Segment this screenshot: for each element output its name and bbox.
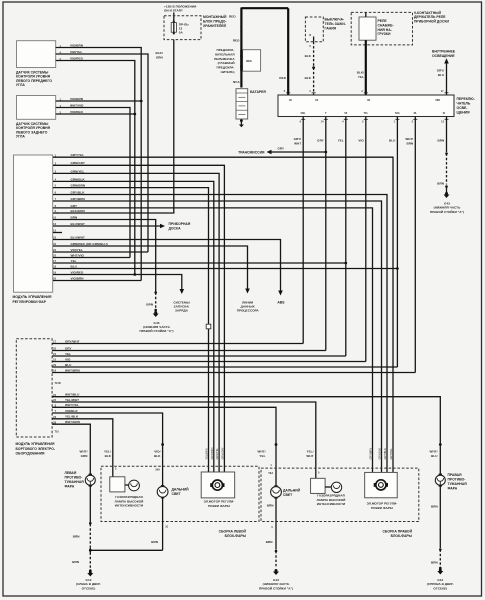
wire label YEL/WHT at right HID [306, 450, 313, 458]
svg-text:ПРИБОРНАЯ: ПРИБОРНАЯ [169, 222, 191, 226]
svg-text:ОСВЕ-: ОСВЕ- [457, 106, 468, 110]
svg-text:ИНТЕНСИВНОСТИ: ИНТЕНСИВНОСТИ [317, 502, 345, 506]
label module [13, 295, 52, 304]
svg-text:WHT/: WHT/ [80, 450, 88, 454]
svg-text:РЕГУЛИРОВКИ ФАР: РЕГУЛИРОВКИ ФАР [13, 300, 47, 304]
svg-text:58D: 58D [435, 98, 440, 102]
svg-text:RED: RED [279, 76, 286, 80]
svg-text:RED: RED [229, 15, 236, 19]
svg-text:BLK/: BLK/ [357, 71, 364, 75]
label ground G43 right [430, 202, 464, 214]
ground G12 left [87, 571, 93, 577]
svg-text:VIO/RED: VIO/RED [70, 56, 84, 60]
svg-text:BRN: BRN [146, 303, 153, 307]
wire label YEL/BLK at left HID [104, 450, 112, 458]
svg-text:ДАЛЬНИЙ: ДАЛЬНИЙ [172, 488, 190, 492]
svg-text:VIO/YEL: VIO/YEL [70, 50, 82, 54]
svg-text:ГАНИЯ: ГАНИЯ [325, 26, 337, 30]
svg-text:VIO/BRN: VIO/BRN [70, 43, 83, 47]
light switch ПЕРЕКЛЮЧАТЕЛЬ ОСВЕЩЕНИЯ [278, 95, 454, 117]
svg-text:ЧАТЕЛЬ: ЧАТЕЛЬ [457, 102, 471, 106]
svg-text:WHT/VIO: WHT/VIO [71, 253, 85, 257]
svg-text:ОСВЕЩЕНИЕ: ОСВЕЩЕНИЕ [432, 54, 455, 58]
svg-text:56A: 56A [269, 471, 274, 475]
wire YEL body module r3 [52, 355, 346, 357]
svg-text:НИТЕЛЬ): НИТЕЛЬ) [221, 70, 235, 74]
svg-text:ГРУЗКИ: ГРУЗКИ [378, 32, 391, 36]
svg-text:ПРАВОЙ СТОЙКИ "А"): ПРАВОЙ СТОЙКИ "А") [430, 210, 464, 214]
svg-text:YEL/BRN: YEL/BRN [205, 448, 209, 459]
left fog lamp ЛЕВАЯ ПРОТИВОТУМАННАЯ ФАРА [85, 474, 95, 487]
terminal labels light switch bottom row [301, 111, 446, 115]
wire WHT/GRN body module r12 to left fog lamp [52, 424, 90, 475]
svg-text:СВЕТ: СВЕТ [172, 492, 182, 496]
svg-text:РОВКИ ФАРЫ: РОВКИ ФАРЫ [371, 506, 393, 510]
right HID ballast + lamp [311, 478, 342, 493]
svg-text:BRN: BRN [438, 139, 445, 143]
wire GRN/BRN module pin5 to left motor [53, 188, 209, 473]
wire BLU/WHT module pin11 stub [53, 225, 161, 227]
svg-text:GRN: GRN [81, 454, 88, 458]
svg-text:СБОРКА ЛЕВОЙ: СБОРКА ЛЕВОЙ [219, 529, 247, 533]
svg-text:БЛОК ПРЕДО-: БЛОК ПРЕДО- [203, 19, 227, 23]
svg-text:GRY/BRN: GRY/BRN [71, 197, 85, 201]
svg-text:BLU: BLU [71, 264, 78, 268]
label light switch [457, 97, 475, 115]
ground G43 (light switch) [444, 192, 450, 198]
wire BRN high beam joins fog ground [90, 549, 162, 551]
level sensor rear left ДАТЧИК СИСТЕМЫ КОНТРОЛЯ УРОВНЯ ЛЕВОГО ЗАДНЕГО УГЛА [17, 96, 62, 120]
pin ticks and numbers above light switch [286, 92, 448, 94]
wire VIO/BRN module pin20 (from sensors) [53, 280, 141, 282]
svg-text:ПРЕДОХРА-: ПРЕДОХРА- [216, 66, 234, 70]
label relay [378, 19, 394, 36]
svg-text:BLU/WHT: BLU/WHT [71, 222, 85, 226]
svg-text:ПРАВАЯ: ПРАВАЯ [448, 473, 463, 477]
wire VIO/BRN sensor RL pin1 [56, 100, 142, 102]
wire VIO body module r4 [52, 361, 366, 363]
svg-text:WHT/: WHT/ [430, 450, 438, 454]
svg-text:ВЫКЛЮЧА-: ВЫКЛЮЧА- [325, 18, 345, 22]
svg-text:НИЯ НА-: НИЯ НА- [378, 28, 392, 32]
node +12V IN ON AND START [164, 5, 196, 13]
wire YEL/BLK body module r11 to left HID lamp [52, 419, 113, 477]
wire RED to light switch pin 30 [287, 8, 289, 95]
svg-text:VIO: VIO [358, 139, 364, 143]
junction GRY / transmission tap [324, 151, 327, 154]
wire right high beam low side BRN [275, 497, 277, 549]
svg-text:БЛОК-ФАРЫ: БЛОК-ФАРЫ [225, 534, 247, 538]
svg-text:80А: 80А [246, 59, 252, 63]
svg-text:ПРОТИВО-: ПРОТИВО- [65, 476, 83, 480]
wire WHT/VIO sensor RL pin4 [56, 108, 130, 258]
svg-text:GRY/BLK: GRY/BLK [383, 448, 387, 459]
body electronics module МОДУЛЬ УПРАВЛЕНИЯ БОРТОВОГО ЭЛЕКТРООБОРУДОВАНИЯ dashed box [16, 339, 52, 437]
svg-text:GRN/GRY: GRN/GRY [71, 161, 85, 165]
wire VIO/BLK body module r10 to left high beam [52, 413, 163, 486]
svg-text:BLK: BLK [305, 54, 312, 58]
pin numbers below light switch [300, 120, 445, 124]
wire WHT/VIO module pin16 (from sensor RL) [53, 257, 130, 259]
wire label WHT/YEL at right high beam [258, 450, 266, 458]
wire GRY arrow to ТРАНСМИССИЯ [238, 147, 326, 155]
wire YEL light switch 56 down [345, 117, 347, 357]
svg-text:ПЕРЕМЫЧКА: ПЕРЕМЫЧКА [214, 57, 235, 61]
label ground G43 (НИЖНЯЯ ЧАСТЬ ПРАВОЙ СТОЙКИ А) [139, 321, 173, 333]
svg-text:BLU: BLU [438, 73, 445, 77]
svg-text:ПЕРЕКЛЮ-: ПЕРЕКЛЮ- [457, 97, 475, 101]
wire BLK/GRN fuse to module pin 9 [57, 40, 174, 213]
svg-text:WHT/: WHT/ [405, 137, 413, 141]
svg-text:ТУМАННАЯ: ТУМАННАЯ [65, 480, 85, 484]
svg-text:GRY/YEL: GRY/YEL [71, 153, 85, 157]
label ground G12 left [76, 578, 101, 590]
svg-text:GRY: GRY [65, 346, 72, 350]
svg-text:BRN: BRN [407, 141, 414, 145]
svg-text:ИНТЕНСИВНОСТИ: ИНТЕНСИВНОСТИ [115, 504, 143, 508]
junction VIO/BRN [140, 100, 143, 103]
wire BRN module pin10 to ground G43 [53, 220, 156, 293]
wire BLU/WHT module pin13 to ABS [53, 240, 281, 292]
wire GRN/BLK module pin4 to left motor [53, 181, 214, 472]
svg-text:WHT/BRN: WHT/BRN [65, 368, 80, 372]
wire VIO/RED sensor RL pin2 [56, 113, 135, 115]
svg-text:YEL: YEL [259, 454, 265, 458]
svg-text:YEL/BLK: YEL/BLK [65, 415, 79, 419]
label body electronics module [16, 442, 56, 456]
svg-text:GRY/: GRY/ [294, 137, 302, 141]
ground G43 center [273, 569, 279, 575]
label left HID [115, 495, 144, 508]
wire GRY module pin8 to right motor [53, 208, 373, 473]
svg-text:ПРАВОЙ СТОЙКИ "А"): ПРАВОЙ СТОЙКИ "А") [259, 586, 293, 590]
wire WHT/BRN body module r6 [52, 372, 415, 374]
left high beam lamp ДАЛЬНИЙ СВЕТ [157, 485, 168, 498]
svg-text:МОНТАЖНЫЙ: МОНТАЖНЫЙ [203, 15, 227, 19]
label fuse block [203, 15, 227, 28]
wire VIO/BRN sensor FL pin1 [56, 48, 142, 281]
svg-text:RL: RL [414, 111, 418, 115]
svg-text:ФАРА: ФАРА [65, 485, 75, 489]
svg-text:ОТСЕКЕ): ОТСЕКЕ) [433, 586, 447, 590]
svg-text:VIO: VIO [65, 357, 71, 361]
svg-text:56A: 56A [395, 111, 400, 115]
svg-text:WHT/YEL: WHT/YEL [65, 403, 79, 407]
svg-text:WHT: WHT [306, 454, 313, 458]
label left motor [204, 500, 235, 508]
relay holder 9-КОНТАКТНЫЙ ДЕРЖАТЕЛЬ РЕЛЕ dashed box [351, 12, 412, 45]
wire BRN right fog to ground G12 right [439, 485, 441, 548]
svg-text:BLK/GRN: BLK/GRN [71, 209, 85, 213]
wire BRN dashed to ground G43 center [275, 550, 278, 553]
pin numbers module [53, 153, 56, 280]
svg-text:ЛЕВАЯ: ЛЕВАЯ [65, 471, 77, 475]
fusible link 80A (ПРЕДОХРАНИТЕЛЬНАЯ ПЕРЕМЫЧКА) [240, 50, 261, 71]
svg-text:СВЕТ: СВЕТ [283, 493, 293, 497]
label right motor [367, 502, 398, 510]
junction BLU [396, 267, 399, 270]
wire BLK/YEL relay to light switch [365, 40, 367, 95]
svg-text:BLK: BLK [105, 454, 112, 458]
arrow down СИСТЕМЫ ЗАПУСКА/ЗАРЯДА [180, 289, 185, 294]
ignition switch ВЫКЛЮЧАТЕЛЬ ЗАЖИГАНИЯ dashed box [305, 17, 323, 42]
fuse block (МОНТАЖНЫЙ БЛОК ПРЕДОХРАНИТЕЛЕЙ) dashed box [164, 16, 201, 40]
svg-text:БАТАРЕЯ: БАТАРЕЯ [250, 90, 266, 94]
wire top bus RED from battery to ignition switch feed [241, 7, 288, 9]
svg-text:GRN/BRN: GRN/BRN [71, 184, 86, 188]
svg-text:BLK: BLK [154, 454, 161, 458]
label relay holder [414, 11, 450, 24]
svg-text:РОВКИ ФАРЫ: РОВКИ ФАРЫ [208, 504, 230, 508]
wire BRN light switch 31 to ground G43 [446, 117, 448, 153]
svg-text:GRY: GRY [71, 204, 78, 208]
svg-text:УГЛА: УГЛА [16, 135, 25, 139]
wire BLK ignition to light switch (dashed) [313, 42, 315, 95]
arrow down ABS [278, 291, 283, 296]
wire YEL/WHT body module r8 to right HID lamp [52, 402, 316, 478]
svg-text:RED: RED [233, 39, 240, 43]
svg-text:WHT: WHT [294, 141, 301, 145]
junction VIO/RED [133, 113, 136, 116]
svg-text:ТУМАННАЯ: ТУМАННАЯ [448, 482, 468, 486]
wire BLU module pin18 to light switch BLU [53, 268, 397, 270]
wire GRN/GRY module pin2 to left motor [53, 165, 224, 472]
wire VIO/YEL sensor FL pin4 [56, 54, 148, 252]
label left fog lamp [65, 471, 85, 489]
svg-text:GRY: GRY [317, 139, 324, 143]
wire GRY/WHT light switch NSL down [302, 117, 304, 344]
node ВНУТРЕННЕЕ ОСВЕЩЕНИЕ (interior lighting, arrow up) [432, 50, 456, 96]
svg-text:GRY: GRY [278, 147, 285, 151]
svg-text:GRY/WHT: GRY/WHT [65, 339, 80, 343]
left HID ballast + lamp ГАЗОРАЗРЯДНАЯ ЛАМПА ВЫСОКОЙ ИНТЕНСИВНОСТИ [110, 477, 140, 492]
svg-text:BRN: BRN [71, 215, 78, 219]
wire labels right motor (vertical) [369, 448, 394, 460]
svg-text:VIO/BRN: VIO/BRN [70, 97, 83, 101]
svg-text:BLU: BLU [431, 454, 438, 458]
svg-text:БОРТОВОГО ЭЛЕКТРО-: БОРТОВОГО ЭЛЕКТРО- [16, 447, 56, 451]
svg-text:ВНУТРЕННЕЕ: ВНУТРЕННЕЕ [432, 50, 456, 54]
svg-text:ОБОРУДОВАНИЯ: ОБОРУДОВАНИЯ [16, 452, 46, 456]
svg-text:BLU: BLU [65, 363, 72, 367]
wire BLU body module r5 [52, 366, 397, 368]
svg-text:9-КОНТАКТНЫЙ: 9-КОНТАКТНЫЙ [414, 11, 441, 15]
wire GRY body module r2 [52, 350, 326, 352]
svg-text:BLU: BLU [389, 139, 396, 143]
svg-text:GRY/YEL: GRY/YEL [389, 448, 393, 460]
wire battery positive lead [240, 8, 242, 88]
svg-text:VIO/BRN: VIO/BRN [71, 276, 84, 280]
svg-text:YEL: YEL [358, 75, 364, 79]
wire label WHT/BLU at right fog [430, 450, 439, 458]
svg-text:БЛОК-ФАРЫ: БЛОК-ФАРЫ [391, 534, 413, 538]
label right high beam [283, 489, 301, 498]
junction VIO/RED sensor drop [133, 273, 136, 276]
wire module pin12 arrow to instrument panel ПРИБОРНАЯ ДОСКА [160, 222, 191, 231]
label right HID [317, 494, 346, 507]
svg-text:(ГЛАВНЫЙ: (ГЛАВНЫЙ [218, 61, 235, 65]
right headlight assembly СБОРКА ПРАВОЙ БЛОК-ФАРЫ dashed box [261, 468, 419, 521]
connector marks on battery lead [240, 26, 242, 28]
svg-text:TFL: TFL [363, 111, 368, 115]
svg-text:НИТЕЛЬНАЯ: НИТЕЛЬНАЯ [215, 52, 235, 56]
svg-text:VIO/RED: VIO/RED [71, 270, 85, 274]
svg-text:ДЕРЖАТЕЛЬ РЕЛЕ: ДЕРЖАТЕЛЬ РЕЛЕ [414, 15, 446, 19]
label right assembly [382, 529, 412, 538]
svg-text:GRN/BLK: GRN/BLK [378, 448, 382, 460]
svg-text:GRY/: GRY/ [437, 69, 445, 73]
svg-text:ПРЕДОХРА-: ПРЕДОХРА- [216, 48, 234, 52]
svg-text:СНАБЖЕ-: СНАБЖЕ- [378, 23, 394, 27]
svg-text:GRN/YEL: GRN/YEL [215, 448, 219, 460]
svg-text:ХРАНИТЕЛЕЙ: ХРАНИТЕЛЕЙ [203, 24, 227, 28]
wire VIO/RED module pin19 to starting/charging systems [53, 275, 182, 290]
svg-text:ЩЕНИЯ: ЩЕНИЯ [457, 111, 471, 115]
wire VIO light switch TFL down [365, 117, 367, 362]
wire BLK/GRN module pin9 stub (joins fuse wire) [53, 212, 58, 214]
svg-text:WHT/BLU: WHT/BLU [65, 393, 80, 397]
wire WHT/BRN light switch RL down [414, 117, 416, 373]
svg-text:GRN/YEL: GRN/YEL [71, 169, 85, 173]
svg-text:YEL/: YEL/ [104, 450, 111, 454]
svg-text:BLU/WHT: BLU/WHT [71, 235, 85, 239]
svg-text:ON И START: ON И START [164, 9, 183, 13]
svg-text:NSL: NSL [301, 111, 307, 115]
svg-text:BRN: BRN [437, 182, 444, 186]
label ground G12 right [427, 578, 454, 590]
svg-text:ТРАНСМИССИЯ: ТРАНСМИССИЯ [238, 151, 265, 155]
pin ticks below light switch [301, 118, 448, 120]
svg-text:РЕЛЕ: РЕЛЕ [378, 19, 388, 23]
svg-text:VIO/RED: VIO/RED [70, 110, 84, 114]
left headlight assembly СБОРКА ЛЕВОЙ БЛОК-ФАРЫ dashed box [101, 466, 259, 521]
label sensor front left [16, 70, 52, 87]
wire VIO/YEL module pin15 (from sensor FL) [53, 251, 148, 253]
svg-text:56A: 56A [155, 468, 160, 472]
svg-text:ДОСКА: ДОСКА [169, 227, 182, 231]
svg-text:BRN: BRN [72, 560, 79, 564]
svg-text:WHT/VIO: WHT/VIO [70, 103, 84, 107]
svg-text:ЗАРЯДА: ЗАРЯДА [175, 309, 189, 313]
svg-text:МОДУЛЬ УПРАВЛЕНИЯ: МОДУЛЬ УПРАВЛЕНИЯ [16, 442, 55, 446]
svg-text:GRY/BRN: GRY/BRN [369, 448, 373, 460]
label fusible link [214, 48, 235, 74]
svg-text:YEL: YEL [65, 352, 71, 356]
ground G12 right [437, 569, 443, 575]
svg-text:ПРОТИВО-: ПРОТИВО- [448, 478, 466, 482]
svg-text:GRN/RED (OR GRN/BLU): GRN/RED (OR GRN/BLU) [71, 242, 108, 246]
svg-text:B: B [309, 33, 311, 37]
terminal labels light switch top row [289, 98, 440, 102]
svg-text:YEL/: YEL/ [307, 450, 314, 454]
svg-text:GRN/BLK: GRN/BLK [71, 177, 86, 181]
wire YEL module pin17 to light switch YEL [53, 262, 346, 264]
svg-text:ТЕЛЬ ЗАЖИ-: ТЕЛЬ ЗАЖИ- [325, 22, 346, 26]
label right fog lamp [448, 473, 468, 491]
wire GRY/WHT body module r1 [52, 343, 303, 345]
wire BRN left fog to ground G12 [89, 485, 91, 522]
wire label WHT/GRN at left fog [80, 450, 88, 458]
wire WHT/BLU body module r7 to right fog lamp [52, 397, 440, 475]
svg-text:BRN: BRN [431, 505, 438, 509]
wire BLU light switch 56A down [396, 117, 398, 368]
svg-text:СБОРКА ПРАВОЙ: СБОРКА ПРАВОЙ [382, 529, 412, 533]
wire GRY/BLK module pin6 to right motor [53, 195, 387, 473]
svg-text:BRN: BRN [266, 540, 273, 544]
label sensor rear left [16, 122, 51, 139]
svg-text:GRY/BLK: GRY/BLK [71, 190, 86, 194]
svg-text:VIO/BLK: VIO/BLK [65, 409, 78, 413]
svg-text:NCA: NCA [233, 80, 241, 84]
svg-text:ПРИБОРНОЙ ДОСКИ: ПРИБОРНОЙ ДОСКИ [414, 20, 450, 24]
svg-text:T10B: T10B [55, 381, 61, 385]
svg-text:YEL/WHT: YEL/WHT [65, 398, 79, 402]
pin numbers body module [53, 340, 56, 425]
wire BRN dashed segment to ground [154, 291, 157, 294]
wire GRY light switch T down [325, 117, 327, 351]
svg-text:УГЛА: УГЛА [16, 83, 25, 87]
svg-text:BRN: BRN [267, 504, 274, 508]
svg-text:GRN: GRN [156, 55, 163, 59]
svg-text:ПРАВОЙ СТОЙКИ "А"): ПРАВОЙ СТОЙКИ "А") [139, 329, 173, 333]
wire WHT/YEL body module r9 to right high beam [52, 407, 276, 486]
svg-text:WHT/: WHT/ [258, 450, 266, 454]
ground battery negative [239, 119, 244, 127]
label left assembly [219, 529, 247, 538]
relay РЕЛЕ СНАБЖЕНИЯ НАГРУЗКИ [359, 12, 376, 40]
wire GRN/YEL module pin3 to left motor [53, 173, 219, 472]
arrow down ЛИНИИ ДАННЫХ ПРОЦЕССОРА [245, 289, 250, 294]
wire labels left motor (vertical) [205, 447, 225, 459]
right leveling motor [365, 472, 398, 497]
connector dots on lamp feeds [161, 443, 164, 446]
svg-text:VIO/: VIO/ [154, 450, 160, 454]
svg-text:VIO/YEL: VIO/YEL [71, 248, 83, 252]
label left high beam [172, 488, 190, 497]
svg-text:YEL: YEL [338, 139, 344, 143]
svg-text:ABS: ABS [277, 300, 285, 304]
svg-text:GRN/GRY: GRN/GRY [220, 447, 224, 459]
ground G43 (module) [153, 311, 159, 317]
wire left high beam low side to bottom edge [162, 497, 164, 550]
wire label VIO/BLK at left high beam [154, 450, 161, 458]
connector inline on GRN/BRN wire [206, 324, 211, 329]
label ignition switch [325, 18, 346, 31]
svg-text:YEL: YEL [71, 259, 77, 263]
svg-text:ДАЛЬНИЙ: ДАЛЬНИЙ [283, 489, 301, 493]
svg-text:ОТСЕКЕ): ОТСЕКЕ) [82, 586, 96, 590]
fuse ПР-ЛЬ 13 5А [171, 20, 189, 34]
headlamp leveling control module МОДУЛЬ УПРАВЛЕНИЯ РЕГУЛИРОВКИ ФАР [14, 155, 53, 292]
right high beam lamp ДАЛЬНИЙ СВЕТ [271, 485, 282, 498]
wire GRY/BRN module pin7 to right motor [53, 201, 382, 472]
svg-text:МОДУЛЬ УПРАВЛЕНИЯ: МОДУЛЬ УПРАВЛЕНИЯ [13, 295, 52, 299]
svg-text:BLK: BLK [305, 76, 312, 80]
svg-text:ФАРА: ФАРА [448, 487, 458, 491]
junction YEL [344, 262, 347, 265]
wire GRY/YEL module pin1 to right motor [53, 157, 393, 472]
svg-text:T10: T10 [55, 430, 60, 434]
wire feed into fuse box [173, 13, 175, 22]
svg-text:BRN: BRN [73, 535, 80, 539]
level sensor front left ДАТЧИК СИСТЕМЫ КОНТРОЛЯ УРОВНЯ ЛЕВОГО ПЕРЕДНЕГО УГЛА [17, 41, 62, 68]
label ground G43 center [259, 578, 293, 590]
left leveling motor ЭЛ.МОТОР РЕГУЛИРОВКИ ФАРЫ [201, 472, 235, 498]
svg-text:BRN: BRN [151, 540, 158, 544]
svg-text:WHT/GRN: WHT/GRN [65, 420, 80, 424]
wire VIO/RED sensor FL pin2 [56, 61, 135, 275]
svg-text:BLK/: BLK/ [155, 51, 162, 55]
